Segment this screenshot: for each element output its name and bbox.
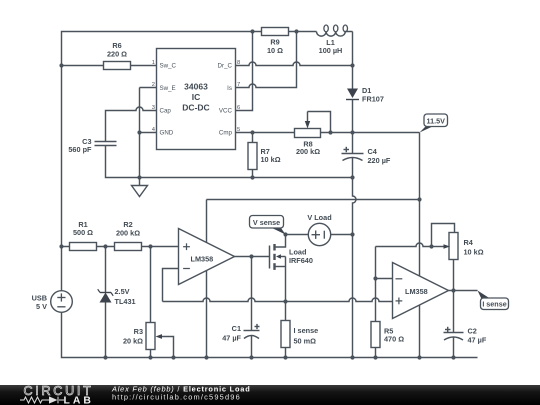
- svg-text:Cmp: Cmp: [219, 130, 233, 137]
- svg-text:7: 7: [237, 82, 240, 88]
- svg-text:IRF640: IRF640: [289, 256, 313, 265]
- svg-text:5: 5: [237, 127, 240, 133]
- svg-text:TL431: TL431: [115, 297, 136, 306]
- svg-text:560 pF: 560 pF: [68, 145, 92, 154]
- svg-text:GND: GND: [160, 130, 174, 137]
- svg-text:FR107: FR107: [362, 95, 384, 104]
- svg-text:47 µF: 47 µF: [222, 334, 241, 343]
- svg-text:LM358: LM358: [191, 255, 214, 264]
- svg-text:Cap: Cap: [160, 108, 172, 115]
- svg-text:11.5V: 11.5V: [427, 117, 446, 126]
- svg-text:20 kΩ: 20 kΩ: [123, 337, 143, 346]
- svg-text:2.5V: 2.5V: [115, 287, 130, 296]
- svg-text:Is: Is: [227, 85, 232, 92]
- svg-text:V Load: V Load: [307, 213, 331, 222]
- svg-text:500 Ω: 500 Ω: [73, 228, 93, 237]
- svg-text:R3: R3: [134, 327, 143, 336]
- svg-text:DC-DC: DC-DC: [182, 103, 209, 113]
- svg-text:200 kΩ: 200 kΩ: [296, 147, 320, 156]
- svg-text:6: 6: [237, 105, 240, 111]
- svg-text:10 kΩ: 10 kΩ: [464, 248, 484, 257]
- svg-text:Sw_E: Sw_E: [160, 85, 176, 92]
- svg-text:IC: IC: [192, 92, 201, 102]
- svg-text:LM358: LM358: [405, 287, 428, 296]
- svg-text:VCC: VCC: [219, 108, 233, 115]
- svg-text:220 Ω: 220 Ω: [107, 49, 127, 58]
- svg-text:50 mΩ: 50 mΩ: [294, 337, 317, 346]
- svg-text:R4: R4: [464, 238, 474, 247]
- svg-text:200 kΩ: 200 kΩ: [116, 228, 140, 237]
- svg-text:LAB: LAB: [64, 395, 94, 405]
- svg-text:C1: C1: [232, 324, 241, 333]
- svg-text:2: 2: [152, 82, 155, 88]
- svg-text:3: 3: [152, 105, 155, 111]
- svg-text:I sense: I sense: [482, 300, 506, 309]
- svg-text:8: 8: [237, 60, 240, 66]
- svg-text:47 µF: 47 µF: [468, 336, 487, 345]
- svg-text:I sense: I sense: [294, 326, 319, 335]
- svg-text:Dr_C: Dr_C: [218, 63, 233, 70]
- svg-text:5 V: 5 V: [36, 302, 47, 311]
- svg-text:10 kΩ: 10 kΩ: [261, 155, 281, 164]
- svg-text:http://circuitlab.com/c595d96: http://circuitlab.com/c595d96: [112, 392, 241, 401]
- svg-text:100 µH: 100 µH: [319, 46, 343, 55]
- svg-text:34063: 34063: [184, 82, 208, 92]
- svg-text:10 Ω: 10 Ω: [267, 46, 283, 55]
- svg-text:470 Ω: 470 Ω: [384, 335, 404, 344]
- svg-text:Sw_C: Sw_C: [160, 63, 177, 70]
- svg-text:1: 1: [152, 60, 155, 66]
- svg-text:C2: C2: [468, 327, 477, 336]
- svg-text:C4: C4: [368, 147, 378, 156]
- svg-text:220 µF: 220 µF: [368, 156, 391, 165]
- svg-text:V sense: V sense: [253, 218, 280, 227]
